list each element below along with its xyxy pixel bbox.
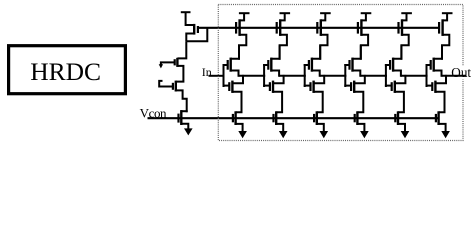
svg-text:HRDC: HRDC	[30, 57, 101, 86]
svg-text:Out: Out	[451, 65, 471, 80]
svg-text:Vcon: Vcon	[140, 105, 167, 120]
svg-text:In: In	[202, 65, 212, 79]
